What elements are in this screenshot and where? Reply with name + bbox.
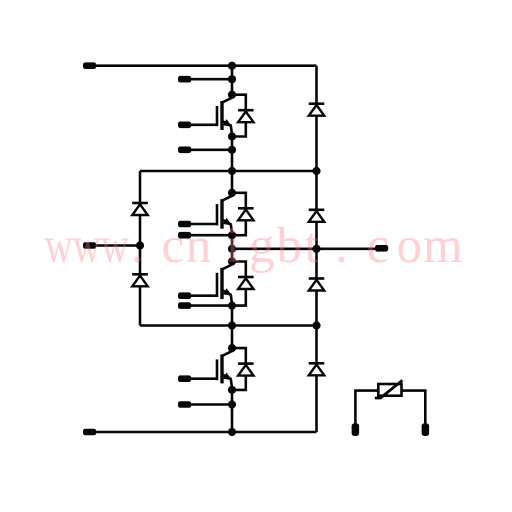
terminal Q2 gate bbox=[178, 221, 191, 228]
terminal neutral (mid left) bbox=[83, 242, 96, 249]
junction Q1 collector aux bbox=[228, 75, 236, 83]
wire Q4 emitter aux bbox=[190, 403, 232, 406]
wire top rail bbox=[95, 64, 317, 67]
junction Q1 collector bbox=[228, 91, 236, 99]
diode D8 (right column second) bbox=[309, 210, 325, 222]
junction neutral clamp bbox=[136, 241, 144, 249]
wire Q3 gate bbox=[190, 294, 217, 297]
junction Q4 collector bbox=[228, 344, 236, 352]
diode D4 (anti-parallel Q4) bbox=[232, 348, 254, 390]
terminal DC+ (top left) bbox=[83, 62, 96, 69]
diode D1 (anti-parallel Q1) bbox=[232, 95, 254, 137]
junction node B right bbox=[312, 321, 320, 329]
junction main/top rail bbox=[228, 62, 236, 70]
diode D2 (anti-parallel Q2) bbox=[232, 193, 254, 235]
terminal Q3 gate bbox=[178, 292, 191, 299]
wire main line segment 2 bbox=[231, 137, 234, 193]
junction output main bbox=[228, 245, 236, 253]
junction Q3 emitter bbox=[228, 302, 236, 310]
wire main line segment 4 bbox=[231, 306, 234, 349]
wire output bbox=[232, 248, 376, 251]
junction node A main bbox=[228, 167, 236, 175]
diode D5 (left clamp upper) bbox=[132, 203, 148, 215]
junction Q1 emitter aux bbox=[228, 146, 236, 154]
junction Q2 collector bbox=[228, 189, 236, 197]
terminal Q2 emitter aux bbox=[178, 232, 191, 239]
wire main line segment 5 bbox=[231, 390, 234, 432]
diode D6 (left clamp lower) bbox=[132, 274, 148, 286]
junction output right bbox=[312, 245, 320, 253]
wire Q3 emitter aux bbox=[190, 304, 232, 307]
wire bottom rail bbox=[95, 431, 317, 434]
junction Q4 emitter aux bbox=[228, 400, 236, 408]
wire main line segment 1 bbox=[231, 66, 234, 95]
wire node B (lower cross wire) bbox=[140, 324, 317, 327]
terminal Q1 collector aux bbox=[178, 76, 191, 83]
wire Q2 emitter aux bbox=[190, 234, 232, 237]
wire Q4 gate bbox=[190, 377, 217, 380]
wire Q1 collector aux bbox=[190, 78, 232, 81]
svg-text:.cnigbt.com: .cnigbt.com bbox=[131, 218, 463, 274]
wire Q1 gate bbox=[190, 124, 217, 127]
thermistor NTC R1 bbox=[355, 380, 425, 424]
terminal NTC pin 1 bbox=[352, 423, 360, 436]
wire neutral to clamp column bbox=[95, 244, 140, 247]
junction main/bottom rail bbox=[228, 428, 236, 436]
diode D9 (right column third) bbox=[309, 279, 325, 291]
junction Q2 emitter bbox=[228, 231, 236, 239]
terminal Q1 gate bbox=[178, 122, 191, 129]
wire right column bbox=[315, 66, 318, 432]
junction Q1 emitter bbox=[228, 132, 236, 140]
terminal Q1 emitter aux bbox=[178, 147, 191, 154]
diode D7 (right column top) bbox=[309, 104, 325, 116]
wire node A (upper cross wire) bbox=[140, 170, 317, 173]
transistor Q2 (IGBT) bbox=[217, 193, 232, 235]
wire main line segment 3 bbox=[231, 235, 234, 261]
wire left clamp column bbox=[139, 171, 142, 326]
terminal NTC pin 2 bbox=[422, 423, 430, 436]
terminal Q4 gate bbox=[178, 375, 191, 382]
junction Q3 collector bbox=[228, 257, 236, 265]
wire Q2 gate bbox=[190, 223, 217, 226]
wire Q1 emitter aux bbox=[190, 149, 232, 152]
diode D3 (anti-parallel Q3) bbox=[232, 262, 254, 306]
terminal Q3 emitter aux bbox=[178, 302, 191, 309]
transistor Q1 (IGBT) bbox=[217, 95, 232, 137]
transistor Q4 (IGBT) bbox=[217, 348, 232, 390]
diode D10 (right column bottom) bbox=[309, 363, 325, 375]
junction Q4 emitter bbox=[228, 386, 236, 394]
watermark www.cnigbt.com bbox=[45, 217, 463, 274]
terminal DC- (bottom left) bbox=[83, 429, 96, 436]
terminal output (right) bbox=[375, 245, 388, 252]
junction node A right bbox=[312, 167, 320, 175]
svg-text:www: www bbox=[45, 217, 129, 273]
transistor Q3 (IGBT) bbox=[217, 262, 232, 306]
junction node B main bbox=[228, 321, 236, 329]
terminal Q4 emitter aux bbox=[178, 401, 191, 408]
